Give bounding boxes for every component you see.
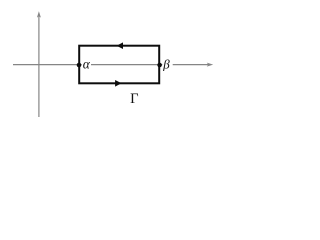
svg-text:β: β xyxy=(162,57,170,72)
x-axis arrowhead xyxy=(207,63,213,67)
svg-text:Γ: Γ xyxy=(130,91,138,107)
y-axis arrowhead xyxy=(37,11,41,17)
bottom arrowhead (rightward) xyxy=(115,80,121,87)
svg-text:α: α xyxy=(83,56,91,71)
label mask alpha xyxy=(82,59,91,70)
x-axis xyxy=(13,64,209,66)
node beta dot xyxy=(157,63,162,68)
contour rectangle xyxy=(79,46,159,84)
y-axis xyxy=(38,17,40,118)
label mask beta xyxy=(162,58,172,71)
node alpha dot xyxy=(77,63,82,68)
top arrowhead (leftward) xyxy=(117,42,123,49)
